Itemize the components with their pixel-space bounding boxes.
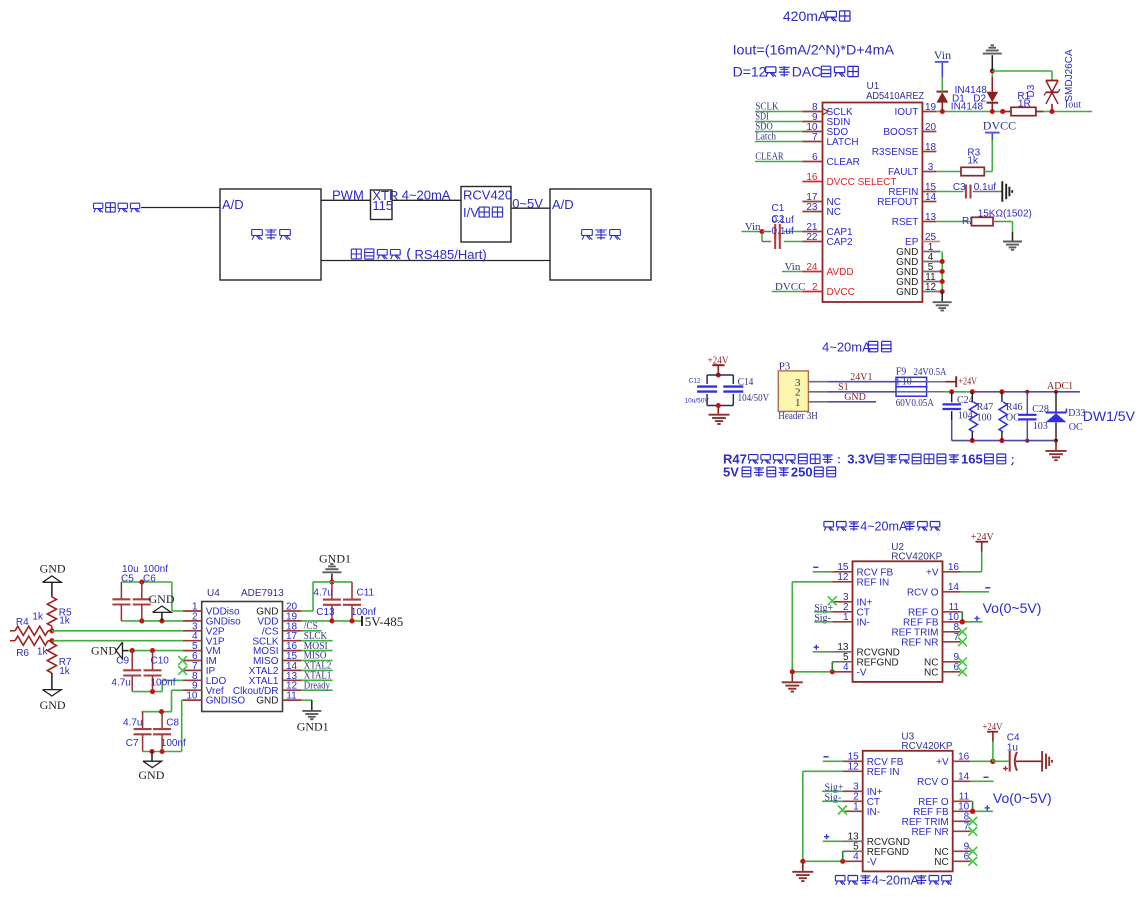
svg-text:0.1uf: 0.1uf [974, 182, 996, 193]
svg-text:Header 3H: Header 3H [778, 410, 818, 422]
svg-text:R6: R6 [16, 648, 29, 659]
svg-text:60V0.05A: 60V0.05A [896, 398, 935, 409]
svg-text:-V: -V [857, 667, 867, 678]
svg-text:REF NR: REF NR [911, 827, 948, 838]
svg-text:+24V: +24V [971, 532, 995, 543]
svg-text:SMDJ26CA: SMDJ26CA [1064, 49, 1075, 102]
svg-text:C11: C11 [357, 588, 375, 599]
svg-text:C24: C24 [957, 395, 974, 406]
svg-text:250: 250 [791, 465, 813, 480]
svg-text:10: 10 [186, 691, 198, 702]
svg-text:C3: C3 [953, 182, 966, 193]
svg-text:1k: 1k [32, 611, 44, 622]
svg-text:Vo(0~5V): Vo(0~5V) [983, 600, 1042, 616]
svg-text:NC: NC [924, 667, 938, 678]
svg-text:1: 1 [853, 802, 859, 813]
svg-text:1k: 1k [37, 647, 49, 658]
svg-text:1k: 1k [59, 666, 71, 677]
svg-text:+V: +V [926, 567, 939, 578]
svg-text:24V1: 24V1 [850, 372, 872, 383]
svg-text:12: 12 [925, 282, 937, 293]
svg-text:LATCH: LATCH [827, 137, 859, 148]
svg-text:11: 11 [286, 691, 297, 702]
svg-text:0~5V: 0~5V [512, 196, 543, 211]
svg-text:IOUT: IOUT [895, 107, 919, 118]
svg-text:3: 3 [928, 162, 934, 173]
svg-text:CLEAR: CLEAR [827, 157, 860, 168]
svg-text:C6: C6 [143, 573, 156, 584]
svg-text:GND: GND [40, 562, 66, 576]
svg-text:GND1: GND1 [319, 552, 351, 566]
svg-text:22: 22 [806, 232, 818, 243]
svg-text:Vin: Vin [934, 48, 951, 62]
svg-text:C9: C9 [116, 655, 129, 666]
svg-text:REF IN: REF IN [867, 767, 900, 778]
svg-text:R4: R4 [16, 617, 29, 628]
svg-text:100: 100 [977, 412, 992, 423]
svg-text:GND: GND [149, 592, 175, 606]
svg-text:4~20mA: 4~20mA [860, 520, 908, 534]
svg-text:C14: C14 [738, 376, 754, 388]
svg-text:0.1uf: 0.1uf [772, 215, 794, 226]
svg-text:DAC: DAC [792, 64, 822, 80]
svg-text:165: 165 [961, 452, 983, 467]
svg-text:NC: NC [934, 857, 948, 868]
svg-text:16: 16 [948, 562, 960, 573]
svg-text:115: 115 [372, 198, 393, 213]
svg-text:+24V: +24V [983, 722, 1004, 733]
svg-text:Vo(0~5V): Vo(0~5V) [993, 790, 1052, 806]
svg-text:REF IN: REF IN [857, 577, 890, 588]
svg-text:GND: GND [256, 696, 278, 707]
svg-text:5V: 5V [723, 465, 739, 480]
svg-text:REFOUT: REFOUT [877, 197, 918, 208]
svg-text:C8: C8 [166, 718, 179, 729]
svg-text:OC: OC [1006, 412, 1020, 423]
svg-text:U4: U4 [207, 588, 220, 599]
svg-text:C13: C13 [316, 607, 335, 618]
svg-text:DVCC: DVCC [827, 287, 855, 298]
svg-text:RSET: RSET [892, 217, 919, 228]
svg-text:1k: 1k [59, 616, 71, 627]
svg-text:104/50V: 104/50V [738, 392, 770, 404]
svg-text:GND: GND [138, 768, 164, 782]
svg-text:7: 7 [812, 132, 818, 143]
svg-text:Iout=(16mA/2^N)*D+4mA: Iout=(16mA/2^N)*D+4mA [733, 42, 895, 58]
svg-text:12: 12 [837, 572, 849, 583]
svg-text:AD5410AREZ: AD5410AREZ [866, 91, 924, 102]
svg-text:D=12: D=12 [733, 64, 767, 80]
svg-text:F10: F10 [896, 377, 912, 388]
svg-text:4.7u: 4.7u [111, 677, 130, 688]
svg-text:24: 24 [806, 262, 818, 273]
svg-text:GND1: GND1 [297, 720, 329, 734]
svg-text:A/D: A/D [552, 197, 574, 212]
svg-text:0.1uf: 0.1uf [772, 226, 794, 237]
svg-text:19: 19 [925, 102, 937, 113]
svg-text:3.3V: 3.3V [847, 452, 874, 467]
svg-text:RCV420KP: RCV420KP [891, 552, 942, 563]
svg-text:C10: C10 [151, 655, 170, 666]
svg-text:OC: OC [1069, 422, 1083, 433]
svg-text:C12: C12 [689, 378, 701, 385]
svg-text:6: 6 [812, 152, 818, 163]
svg-text:ADE7913: ADE7913 [241, 588, 284, 599]
svg-text:4.7u: 4.7u [123, 718, 142, 729]
svg-text:100nf: 100nf [161, 738, 186, 749]
svg-text:FAULT: FAULT [888, 167, 918, 178]
svg-text:REF NR: REF NR [901, 637, 938, 648]
svg-text:2: 2 [812, 282, 818, 293]
svg-text:RS485/Hart): RS485/Hart) [415, 247, 487, 262]
svg-text:14: 14 [925, 192, 937, 203]
svg-text:DW1/5V: DW1/5V [1083, 408, 1136, 424]
svg-text:1: 1 [795, 397, 801, 409]
svg-text:4: 4 [853, 852, 859, 863]
svg-text:Dready: Dready [304, 680, 330, 691]
svg-text:CAP2: CAP2 [827, 237, 854, 248]
svg-text:I/V: I/V [463, 205, 479, 220]
svg-text:420mA: 420mA [783, 8, 828, 24]
svg-text:+V: +V [936, 757, 949, 768]
svg-text:16: 16 [958, 752, 970, 763]
svg-text:Latch: Latch [755, 131, 776, 142]
svg-text:4~20mA: 4~20mA [872, 874, 920, 888]
svg-text:20: 20 [925, 122, 937, 133]
svg-text:14: 14 [958, 772, 970, 783]
svg-text:4: 4 [843, 662, 849, 673]
svg-text:23: 23 [806, 202, 818, 213]
svg-text:DVCC: DVCC [983, 119, 1016, 133]
svg-text:DVCC SELECT: DVCC SELECT [827, 177, 897, 188]
svg-text:4~20mA: 4~20mA [402, 188, 451, 203]
svg-text:-V: -V [867, 857, 877, 868]
svg-text:24V0.5A: 24V0.5A [914, 367, 948, 378]
svg-text:GNDISO: GNDISO [206, 696, 246, 707]
svg-text:100nf: 100nf [151, 677, 176, 688]
svg-text:ADC1: ADC1 [1047, 381, 1073, 392]
svg-text:RCV O: RCV O [907, 587, 939, 598]
svg-text:4.7u: 4.7u [313, 588, 332, 599]
svg-text:1: 1 [843, 612, 849, 623]
svg-text:PWM: PWM [332, 188, 364, 203]
svg-text:IN4148: IN4148 [951, 102, 984, 113]
svg-text:GND: GND [91, 644, 117, 658]
svg-text:103: 103 [1033, 421, 1048, 432]
svg-text:IN-: IN- [867, 807, 880, 818]
svg-text:D3: D3 [1026, 84, 1037, 97]
svg-text:AVDD: AVDD [827, 267, 854, 278]
svg-text:4~20mA: 4~20mA [822, 340, 871, 355]
svg-text:RCV O: RCV O [917, 777, 949, 788]
svg-text:GND: GND [896, 287, 918, 298]
svg-text:14: 14 [948, 582, 960, 593]
svg-text:C7: C7 [126, 738, 139, 749]
svg-text:GND: GND [40, 698, 66, 712]
svg-text:12: 12 [848, 762, 860, 773]
svg-text:R3SENSE: R3SENSE [872, 147, 919, 158]
svg-text:A/D: A/D [222, 197, 244, 212]
svg-text:18: 18 [925, 142, 937, 153]
svg-text:NC: NC [827, 207, 841, 218]
svg-text:1k: 1k [967, 155, 979, 166]
svg-text:C1: C1 [772, 203, 785, 214]
svg-text:CLEAR: CLEAR [755, 151, 784, 162]
svg-text:GND: GND [844, 392, 866, 403]
svg-text:IN-: IN- [857, 617, 870, 628]
svg-text:1R: 1R [1018, 98, 1031, 109]
svg-text:RCV420: RCV420 [463, 187, 512, 202]
svg-text:BOOST: BOOST [883, 127, 918, 138]
svg-text:C5: C5 [121, 573, 134, 584]
svg-text:100nf: 100nf [351, 607, 376, 618]
svg-text:10u/50V: 10u/50V [685, 398, 710, 405]
svg-text:15KΩ(1502): 15KΩ(1502) [978, 208, 1032, 219]
svg-text:+24V: +24V [959, 377, 978, 388]
svg-text:16: 16 [806, 172, 818, 183]
svg-text:RCV420KP: RCV420KP [901, 741, 952, 752]
svg-text:13: 13 [925, 212, 937, 223]
